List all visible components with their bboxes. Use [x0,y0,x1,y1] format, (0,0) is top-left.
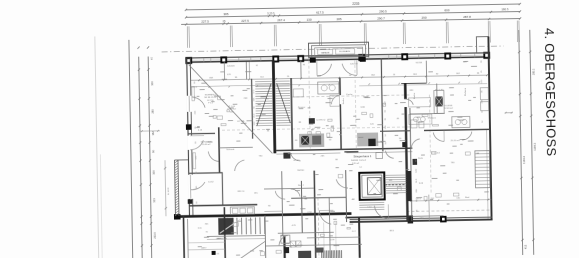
kitchen lower boundary right apartment [410,112,445,115]
kitchen counter column right apartment [434,90,444,113]
right dimension chain line A [519,30,523,255]
left outer wall [187,58,190,216]
svg-text:GARAGE: GARAGE [321,51,330,54]
radiator marks on left wall [192,87,195,101]
left wall door opening with arc [187,136,192,150]
double door leaves below housing [316,61,318,75]
balcony corner post black [174,214,181,220]
door arc right hall [411,139,420,149]
elevator shaft [359,172,384,199]
svg-text:413: 413 [524,244,528,249]
faint page fold lines left [95,36,99,258]
svg-text:290.5: 290.5 [379,9,387,13]
wall cabinet center-left [293,89,303,97]
elevator car [367,177,381,194]
lower stair treads [218,218,220,235]
svg-text:02 T9A: 02 T9A [237,120,245,123]
stair treads south of elevator [359,201,384,203]
svg-text:267.4: 267.4 [277,18,285,22]
svg-text:FLUGDACH: FLUGDACH [339,50,350,53]
svg-text:120/220: 120/220 [350,63,358,65]
svg-text:300: 300 [152,170,156,175]
svg-text:4. OBERGESCHOSS: 4. OBERGESCHOSS [542,28,559,157]
bottom-center wall vertical E [329,197,330,258]
svg-text:90/200: 90/200 [297,170,305,172]
svg-text:Wohnen: Wohnen [428,117,437,119]
wc fixtures bottom-center [298,251,311,258]
dark fixture right hall [402,142,407,147]
door arc bottom-center D [291,189,300,197]
svg-text:12.40 m2: 12.40 m2 [444,108,454,110]
svg-text:233.5: 233.5 [153,232,157,239]
svg-text:617.5: 617.5 [316,10,324,14]
svg-text:Kuche: Kuche [343,97,345,104]
svg-text:2235: 2235 [352,2,359,6]
stair core north wall [344,151,358,153]
svg-text:227.5: 227.5 [201,19,209,23]
stair core west wall lower [358,217,361,257]
svg-text:285: 285 [151,109,155,114]
svg-text:300: 300 [150,81,154,86]
bottom-center partition horizontal A [264,187,314,190]
stair treads east of elevator [385,174,407,176]
svg-text:92/258: 92/258 [416,62,423,64]
svg-text:ABST: ABST [201,247,207,250]
lower left room partition vertical [221,173,224,205]
door arc bottom-center B [319,210,331,224]
top outer wall [187,53,490,58]
dashed projection line lower [222,127,410,130]
svg-text:StHG00 1.04 m2: StHG00 1.04 m2 [351,159,367,162]
stair west flight side wall [252,79,253,139]
extension lines from dimension ticks [186,26,188,47]
window openings in left wall [187,96,192,112]
right apartment wall inner line [410,108,412,221]
left tick cluster at mid height [140,130,160,132]
svg-text:25.20 m2: 25.20 m2 [451,140,461,142]
svg-text:Schrank: Schrank [226,148,235,151]
left dimension chain line B [139,57,143,258]
corridor wall parallel inner line [276,153,340,154]
svg-text:130: 130 [307,17,312,21]
right outer wall [488,37,491,220]
bottom outer wall right section [350,217,493,219]
door arc bottom-center C [336,179,348,188]
dashed vertical projection lines [309,61,311,151]
svg-text:Kuche: Kuche [414,92,416,99]
lower stair bottom lines [207,236,265,237]
window sill ticks on top wall [203,58,205,62]
wall through lower stair [223,207,226,258]
door arc in right apartment wall [404,99,413,105]
partition above kitchen left [219,146,252,149]
second dimension chain line [186,12,520,18]
svg-text:Bad 2: Bad 2 [298,185,305,187]
black post lower-left [212,251,216,255]
lower stair dark flight [219,218,234,235]
door gap in center partition wall [339,95,341,104]
fine survey marks clutter [242,89,247,91]
right dim small tick cluster [505,112,513,114]
closet wall stubs below top wall [223,62,225,79]
svg-text:1184.3: 1184.3 [533,142,537,150]
svg-text:227.5: 227.5 [241,19,249,23]
kitchen block center-right apartment [357,133,378,147]
svg-text:5 25 5: 5 25 5 [267,11,275,15]
bottom wall of left apartment [189,205,257,206]
balcony door arc left wall upper [192,97,205,108]
kitchen counter left apartment [230,207,254,215]
thin wall right room [428,195,430,221]
svg-text:313: 313 [152,198,156,203]
svg-text:162: 162 [151,131,155,136]
svg-text:B. 9678: B. 9678 [168,187,170,195]
interior dimension string upper [191,75,487,80]
stair arrow diagonals [256,83,272,125]
svg-text:KU 1.80: KU 1.80 [435,89,444,91]
interior door arc left apartment second [235,160,245,171]
upper stair treads east flight [276,80,290,82]
dark fixture mid room [309,118,315,124]
svg-text:Diele: Diele [418,158,424,160]
svg-text:14.99: 14.99 [329,239,335,241]
door arc bottom-center A [275,191,285,199]
kitchen counter row right apartment [408,98,430,107]
bottom edge wall of upper-left section [175,214,351,217]
center apartment west wall [291,78,292,151]
door arc right apartment second [462,132,472,140]
interior door arc left apartment [208,151,218,161]
right wall stair ladder [475,151,490,188]
room diagonal sight line [189,63,273,154]
lower room diagonal [238,242,265,258]
svg-text:285: 285 [337,17,342,21]
right apartment interior wall horizontal [380,130,410,133]
stairhead housing on top wall [308,42,368,57]
lower-left partitions [188,248,225,251]
center corridor wall horizontal [276,148,412,150]
bottom-center wall vertical A [282,171,283,236]
wall junction dark at corridor south [408,215,414,223]
svg-text:P 1.2: P 1.2 [208,102,214,104]
stair east flight side wall [291,78,292,151]
right apartment wall vertical [404,83,407,99]
left dimension chain line A [129,40,133,258]
right wall inner face [487,130,489,220]
svg-text:290: 290 [422,15,427,19]
rooftop housing top-right [476,37,488,54]
svg-text:Kuche: Kuche [346,94,353,96]
upper stair treads west flight [255,80,272,82]
left room partition horizontal short [188,132,215,134]
corridor fixture dark [283,153,290,159]
svg-text:180.5: 180.5 [501,7,509,11]
columns on top wall [185,57,192,64]
stair core west wall [273,60,275,153]
right dimension chain line B [530,30,534,255]
bottom-center partition horizontal E [264,210,282,212]
svg-text:14.62: 14.62 [208,181,214,183]
third dimension chain line [181,19,520,25]
balcony dimension line [164,160,167,216]
dashed projection line mid [291,95,409,97]
bottom-center wall vertical D [345,170,348,222]
interior dimension string secondary [191,84,339,87]
small room partition top-right B [436,83,439,113]
svg-text:Stiegenhaus 1: Stiegenhaus 1 [353,154,371,158]
svg-text:285.1: 285.1 [531,68,535,75]
counter along stair wall [318,82,339,94]
svg-text:Wohnen: Wohnen [465,87,467,96]
dashed line right room [406,210,491,211]
roof overhang dash-dot line [162,46,504,52]
overall dimension line 2235 [186,4,520,10]
fixture pair at stair hall [376,152,383,158]
columns on left wall [186,124,192,130]
bottom-center partition horizontal F [307,236,360,239]
svg-text:385: 385 [223,12,228,16]
wall between left rooms [218,127,221,172]
counter on right wall [452,116,470,127]
interior door arc corridor east [385,151,393,159]
wall segment top-right horizontal [401,82,426,84]
svg-text:NR 2.4: NR 2.4 [238,191,246,193]
thin verticals below radiator room [323,222,325,250]
svg-text:272.5: 272.5 [191,87,197,89]
svg-text:13.46 m2: 13.46 m2 [202,144,212,146]
kitchen block center-left apartment [299,133,324,147]
bottom-center wall vertical C [314,171,316,258]
center partition wall vertical [340,78,341,149]
left dimension ticks [137,47,139,49]
interior door arc center corridor [291,153,301,161]
bottom-center dark wall lower [283,236,286,258]
fixture boxes right hall [411,120,417,128]
svg-text:600: 600 [444,8,449,12]
wall elevator west [381,58,383,151]
door arc right apartment [433,132,444,141]
lower-left outer wall to sheet edge [182,216,185,258]
small room partition top-right A [425,61,427,84]
svg-text:120/220: 120/220 [227,65,235,67]
right dimension ticks [518,51,520,53]
left dimension chain line C [148,57,152,258]
bottom-center partition horizontal C [278,231,334,234]
svg-text:290.7: 290.7 [377,16,385,20]
door arc near elevator [374,206,387,219]
inner parallel wall line above bottom wall [364,216,444,217]
svg-text:E1.02: E1.02 [294,160,301,162]
left balcony edge with hatching [173,160,176,216]
bottom-center wall vertical B [300,181,303,233]
column on bottom wall [440,216,447,223]
black corner piers of housing [310,58,316,63]
bottom-center partition horizontal B [291,196,346,199]
svg-text:12.99 m2: 12.99 m2 [316,119,326,121]
radiator grille bottom [321,251,323,258]
left rooms partition wall horizontal [189,172,223,175]
door arc bottom-center E [279,235,289,245]
dark wall strip east of treads [406,171,412,201]
stair core south wall [346,216,412,217]
svg-text:1194.4: 1194.4 [522,156,526,164]
svg-text:AR: AR [352,198,356,201]
bottom-center partition horizontal D [265,244,362,246]
landing dashes [385,184,407,186]
bottom-center corridor wall west [264,215,267,258]
dimension string right room [406,200,491,201]
small bath fixtures at right wall [480,88,488,100]
balcony door arc left wall lower [191,182,205,190]
svg-text:287.8: 287.8 [463,15,471,19]
svg-text:WC: WC [254,193,258,195]
